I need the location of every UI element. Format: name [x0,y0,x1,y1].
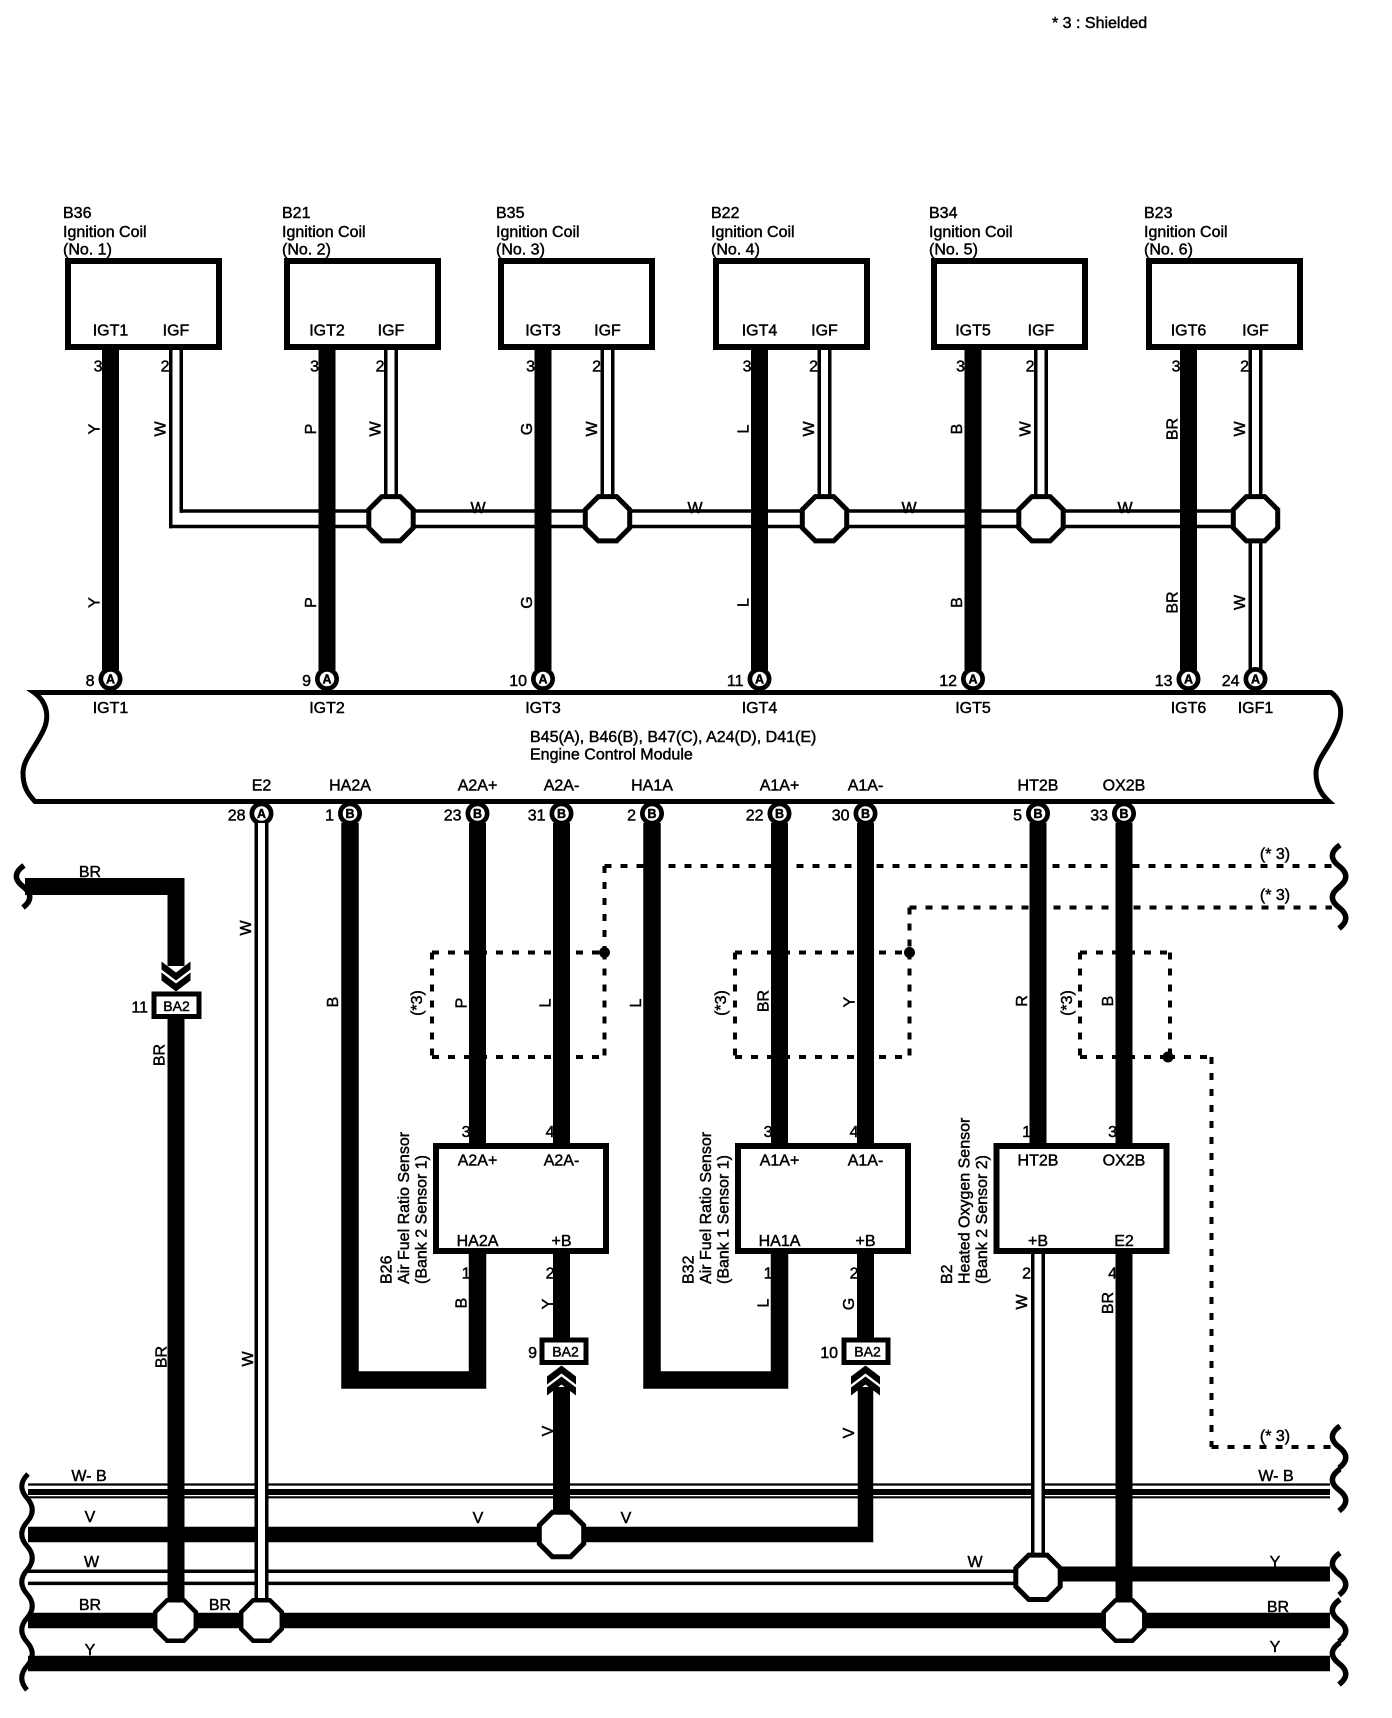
svg-text:2: 2 [1240,359,1249,376]
svg-text:3: 3 [462,1124,471,1141]
svg-text:IGT2: IGT2 [309,700,345,717]
svg-text:B: B [345,807,354,821]
svg-text:IGF: IGF [378,323,405,340]
svg-text:OX2B: OX2B [1103,778,1146,795]
svg-text:2: 2 [376,359,385,376]
svg-text:Ignition Coil: Ignition Coil [929,224,1013,241]
svg-text:A2A+: A2A+ [458,778,498,795]
svg-text:BR: BR [152,1044,169,1066]
svg-text:1: 1 [1022,1124,1031,1141]
svg-text:BA2: BA2 [854,1344,881,1360]
svg-text:B: B [861,807,870,821]
svg-text:IGT2: IGT2 [309,323,345,340]
svg-text:B32: B32 [681,1255,698,1284]
svg-text:B: B [949,424,966,435]
svg-text:IGT4: IGT4 [742,700,778,717]
svg-text:2: 2 [161,359,170,376]
svg-text:V: V [85,1509,96,1526]
svg-text:L: L [736,424,753,433]
svg-text:L: L [628,998,645,1007]
svg-text:W- B: W- B [1258,1468,1293,1485]
svg-text:Y: Y [87,423,104,434]
svg-text:(* 3): (* 3) [1260,846,1290,863]
svg-text:2: 2 [809,359,818,376]
svg-text:5: 5 [1013,808,1022,825]
svg-text:1: 1 [325,808,334,825]
svg-text:IGT6: IGT6 [1171,700,1207,717]
svg-text:A: A [968,673,977,687]
svg-text:A2A-: A2A- [544,1153,580,1170]
svg-text:A: A [755,673,764,687]
svg-text:B: B [1100,996,1117,1007]
svg-text:Heated Oxygen Sensor: Heated Oxygen Sensor [957,1117,974,1284]
svg-text:HA1A: HA1A [631,778,673,795]
svg-text:+B: +B [551,1233,571,1250]
svg-text:* 3 : Shielded: * 3 : Shielded [1052,15,1147,32]
svg-text:HA2A: HA2A [329,778,371,795]
svg-text:B21: B21 [282,205,311,222]
svg-text:Y: Y [87,597,104,608]
svg-text:L: L [538,998,555,1007]
svg-text:B: B [557,807,566,821]
svg-text:A2A-: A2A- [544,778,580,795]
svg-text:HA2A: HA2A [457,1233,499,1250]
svg-text:(No. 3): (No. 3) [496,242,545,259]
svg-text:A: A [257,807,266,821]
svg-text:B34: B34 [929,205,958,222]
svg-text:A: A [106,673,115,687]
svg-text:A: A [538,673,547,687]
svg-text:IGT5: IGT5 [955,323,991,340]
svg-text:10: 10 [820,1345,838,1362]
svg-text:A1A+: A1A+ [760,778,800,795]
svg-text:B: B [647,807,656,821]
svg-text:A: A [322,673,331,687]
svg-text:IGF: IGF [594,323,621,340]
svg-text:8: 8 [86,673,95,690]
svg-text:(* 3): (* 3) [1260,887,1290,904]
svg-text:BR: BR [1165,591,1182,613]
svg-text:Ignition Coil: Ignition Coil [1144,224,1228,241]
svg-text:3: 3 [764,1124,773,1141]
svg-text:9: 9 [302,673,311,690]
svg-text:BA2: BA2 [163,998,190,1014]
svg-text:28: 28 [228,808,246,825]
svg-text:P: P [303,597,320,608]
svg-text:W: W [153,421,170,437]
svg-text:A1A-: A1A- [848,1153,884,1170]
svg-text:B: B [473,807,482,821]
svg-text:24: 24 [1222,673,1240,690]
svg-text:11: 11 [727,673,744,690]
svg-text:22: 22 [746,808,764,825]
svg-text:3: 3 [1172,359,1181,376]
svg-text:30: 30 [832,808,850,825]
svg-text:Y: Y [85,1642,96,1659]
svg-text:W: W [584,421,601,437]
svg-text:4: 4 [1108,1266,1117,1283]
svg-text:23: 23 [444,808,462,825]
svg-text:33: 33 [1090,808,1108,825]
svg-text:W: W [470,500,486,517]
svg-text:Ignition Coil: Ignition Coil [711,224,795,241]
svg-text:9: 9 [528,1345,537,1362]
svg-text:(*3): (*3) [1059,990,1076,1016]
svg-text:Engine Control Module: Engine Control Module [530,747,693,764]
svg-text:B: B [1119,807,1128,821]
svg-text:(Bank 2 Sensor 2): (Bank 2 Sensor 2) [974,1155,991,1284]
svg-text:11: 11 [131,1000,148,1017]
svg-text:A2A+: A2A+ [458,1153,498,1170]
svg-text:BR: BR [1165,418,1182,440]
svg-text:B22: B22 [711,205,740,222]
svg-text:W: W [901,500,917,517]
svg-text:W: W [801,421,818,437]
svg-text:IGF: IGF [163,323,190,340]
svg-text:(* 3): (* 3) [1260,1428,1290,1445]
svg-text:IGT3: IGT3 [525,323,561,340]
svg-text:3: 3 [526,359,535,376]
svg-text:B45(A), B46(B), B47(C), A24(D): B45(A), B46(B), B47(C), A24(D), D41(E) [530,729,816,746]
svg-text:E2: E2 [1114,1233,1134,1250]
svg-text:IGT1: IGT1 [93,323,129,340]
svg-text:Y: Y [1270,1639,1281,1656]
svg-text:Y: Y [540,1298,557,1309]
svg-text:1: 1 [462,1266,471,1283]
svg-text:A: A [1184,673,1193,687]
svg-text:(*3): (*3) [409,990,426,1016]
svg-text:3: 3 [743,359,752,376]
svg-text:G: G [841,1298,858,1310]
svg-text:BA2: BA2 [552,1344,579,1360]
svg-text:Ignition Coil: Ignition Coil [282,224,366,241]
svg-text:Ignition Coil: Ignition Coil [496,224,580,241]
svg-text:3: 3 [310,359,319,376]
svg-text:P: P [303,424,320,435]
svg-text:2: 2 [850,1266,859,1283]
svg-text:IGT5: IGT5 [955,700,991,717]
svg-text:W: W [1014,1294,1031,1310]
svg-text:B: B [1033,807,1042,821]
svg-text:2: 2 [592,359,601,376]
svg-text:BR: BR [756,990,773,1012]
svg-text:A1A+: A1A+ [760,1153,800,1170]
svg-text:W: W [368,421,385,437]
svg-text:G: G [519,596,536,608]
svg-text:IGT4: IGT4 [742,323,778,340]
svg-text:31: 31 [528,808,546,825]
svg-text:12: 12 [939,673,957,690]
svg-text:BR: BR [209,1597,231,1614]
svg-text:P: P [454,998,471,1009]
svg-text:B26: B26 [379,1255,396,1284]
svg-text:13: 13 [1155,673,1173,690]
svg-text:W: W [1117,500,1133,517]
svg-text:(*3): (*3) [713,990,730,1016]
svg-text:3: 3 [1108,1124,1117,1141]
svg-text:OX2B: OX2B [1103,1153,1146,1170]
svg-text:BR: BR [1267,1599,1289,1616]
svg-text:E2: E2 [252,778,272,795]
svg-text:4: 4 [546,1124,555,1141]
svg-text:10: 10 [509,673,527,690]
svg-text:G: G [519,423,536,435]
svg-text:B: B [454,1298,471,1309]
svg-text:Y: Y [1270,1554,1281,1571]
svg-text:1: 1 [764,1266,773,1283]
svg-text:2: 2 [1026,359,1035,376]
svg-text:V: V [540,1425,557,1436]
svg-text:R: R [1014,995,1031,1007]
svg-text:IGF: IGF [811,323,838,340]
svg-text:(No. 1): (No. 1) [63,242,112,259]
svg-text:W: W [1018,421,1035,437]
svg-text:(Bank 1 Sensor 1): (Bank 1 Sensor 1) [716,1155,733,1284]
svg-text:IGF: IGF [1242,323,1269,340]
svg-text:W: W [1232,421,1249,437]
svg-text:W: W [687,500,703,517]
svg-text:Y: Y [842,996,859,1007]
svg-text:(No. 5): (No. 5) [929,242,978,259]
svg-text:V: V [621,1510,632,1527]
svg-text:W- B: W- B [71,1468,106,1485]
svg-text:B35: B35 [496,205,525,222]
svg-text:Ignition Coil: Ignition Coil [63,224,147,241]
svg-text:(No. 2): (No. 2) [282,242,331,259]
svg-text:A1A-: A1A- [848,778,884,795]
svg-text:2: 2 [627,808,636,825]
svg-text:Air Fuel Ratio Sensor: Air Fuel Ratio Sensor [396,1131,413,1284]
svg-text:W: W [84,1554,100,1571]
svg-text:3: 3 [956,359,965,376]
svg-text:2: 2 [1022,1266,1031,1283]
svg-text:+B: +B [855,1233,875,1250]
svg-text:+B: +B [1028,1233,1048,1250]
svg-text:(Bank 2 Sensor 1): (Bank 2 Sensor 1) [414,1155,431,1284]
svg-text:W: W [238,920,255,936]
svg-text:4: 4 [850,1124,859,1141]
svg-text:2: 2 [546,1266,555,1283]
svg-text:BR: BR [79,864,101,881]
svg-text:BR: BR [1100,1292,1117,1314]
svg-text:B: B [775,807,784,821]
svg-text:V: V [473,1510,484,1527]
svg-text:3: 3 [94,359,103,376]
svg-text:W: W [240,1351,257,1367]
svg-text:W: W [1232,594,1249,610]
svg-text:BR: BR [79,1597,101,1614]
svg-text:HA1A: HA1A [759,1233,801,1250]
svg-text:B2: B2 [939,1264,956,1284]
svg-text:IGF: IGF [1028,323,1055,340]
svg-text:IGT3: IGT3 [525,700,561,717]
svg-text:Air Fuel Ratio Sensor: Air Fuel Ratio Sensor [698,1131,715,1284]
svg-text:L: L [756,1298,773,1307]
svg-text:(No. 6): (No. 6) [1144,242,1193,259]
svg-text:B36: B36 [63,205,92,222]
svg-text:B: B [949,597,966,608]
svg-text:BR: BR [154,1346,171,1368]
svg-text:B23: B23 [1144,205,1173,222]
svg-text:W: W [967,1554,983,1571]
svg-text:A: A [1251,673,1260,687]
svg-text:HT2B: HT2B [1018,778,1059,795]
svg-text:IGT6: IGT6 [1171,323,1207,340]
svg-text:IGF1: IGF1 [1238,700,1274,717]
svg-text:IGT1: IGT1 [93,700,129,717]
svg-text:HT2B: HT2B [1018,1153,1059,1170]
svg-text:L: L [736,598,753,607]
svg-text:(No. 4): (No. 4) [711,242,760,259]
svg-text:V: V [841,1427,858,1438]
svg-text:B: B [325,997,342,1008]
